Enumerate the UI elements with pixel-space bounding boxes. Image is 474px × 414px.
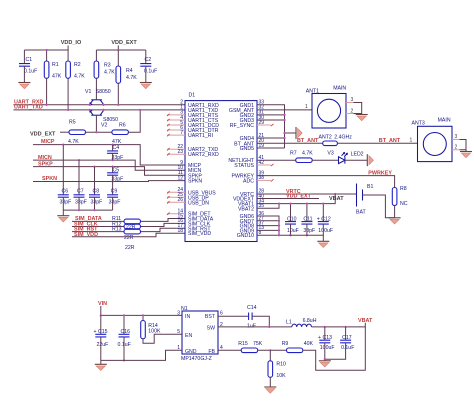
wire VDD_EXT to R5 (60, 131, 69, 133)
junction VIN stem (100, 314, 102, 316)
svg-text:L1: L1 (286, 319, 292, 325)
svg-text:100uF: 100uF (318, 228, 333, 234)
LED V3 (327, 151, 347, 164)
pin 26 USB_DN stub (167, 201, 185, 203)
ground main (317, 241, 329, 247)
resistor R7 (290, 151, 313, 163)
IC N1 regulator (181, 306, 218, 362)
wire VBAT2 (257, 204, 279, 209)
svg-text:10K: 10K (276, 373, 286, 379)
transistor V2 (90, 110, 119, 132)
wire GND9 (257, 229, 279, 231)
svg-text:GND: GND (185, 349, 197, 355)
pin 3 UART1_RTS stub (167, 114, 185, 116)
svg-text:2: 2 (351, 108, 354, 114)
svg-text:22R: 22R (125, 245, 135, 251)
wire BST (218, 315, 249, 317)
svg-text:VBAT2: VBAT2 (238, 206, 254, 212)
junction C13 top (324, 326, 326, 328)
pin numbers N1 (177, 310, 223, 351)
pin 14 SIM_DET stub (167, 213, 185, 215)
svg-text:SW: SW (207, 326, 215, 332)
capacitor C9 (107, 182, 120, 211)
capacitor C17 (325, 327, 355, 359)
pin 29 RF_SYNC stub (257, 124, 274, 126)
wire UART_RXD (13, 104, 185, 106)
junction C16 top (123, 314, 125, 316)
svg-text:VDD_EXT: VDD_EXT (30, 132, 56, 138)
wire ANT3 gnd (460, 140, 467, 152)
wire GND4 (257, 137, 285, 139)
capacitor C10 (285, 204, 299, 236)
svg-text:SPKN: SPKN (188, 179, 202, 185)
junction C4 on MICP (111, 143, 113, 145)
ground C2 (140, 83, 152, 89)
wire gnd stem (62, 210, 64, 216)
svg-text:ANT2: ANT2 (319, 134, 332, 140)
capacitor C13 (318, 327, 335, 361)
wire VDDEXT (257, 198, 319, 200)
capacitor C14 (247, 305, 269, 330)
junction C4 on MICN (111, 159, 113, 161)
wire R9 to VBAT (303, 327, 366, 370)
svg-text:6: 6 (220, 310, 223, 316)
svg-text:40K: 40K (304, 341, 314, 347)
resistor R10 (268, 350, 286, 387)
svg-text:33pF: 33pF (112, 155, 124, 161)
svg-text:D1: D1 (189, 93, 196, 99)
svg-text:33pF: 33pF (75, 200, 87, 206)
junction V2 base (95, 131, 97, 133)
svg-text:33pF: 33pF (303, 228, 315, 234)
pin 3 ANT3 (452, 134, 460, 140)
wire R15 to R9 (258, 349, 287, 351)
junction R1 on RXD (45, 104, 47, 106)
svg-text:MP1470GJ-Z: MP1470GJ-Z (181, 356, 212, 362)
capacitor C16 (118, 315, 131, 360)
svg-text:V2: V2 (101, 123, 107, 129)
svg-text:LED2: LED2 (351, 152, 364, 158)
wire R7 to LED (312, 159, 338, 161)
svg-text:VBAT: VBAT (358, 318, 373, 324)
svg-text:R3: R3 (104, 63, 111, 69)
ground C15 (100, 360, 102, 364)
svg-text:V1: V1 (85, 89, 91, 95)
svg-text:1: 1 (305, 104, 308, 110)
ground audio (57, 216, 69, 222)
junction GND4 (283, 137, 285, 139)
junction C17 top (344, 326, 346, 328)
resistor R11 (112, 216, 141, 224)
resistor R15 (238, 341, 262, 353)
wire SIM_DATA (72, 219, 185, 222)
left pin numbers (177, 100, 183, 234)
ground ANT1 (356, 115, 368, 121)
wire UART_TXD (13, 109, 185, 111)
svg-text:VDD_IO: VDD_IO (61, 40, 82, 46)
junction GND8 (278, 224, 280, 226)
wire BT_ANT to ANT3 (337, 142, 417, 144)
wire ANT1 gnd (354, 103, 362, 115)
ground R8 (389, 218, 401, 224)
svg-text:R9: R9 (282, 341, 289, 347)
pin 7 UART1_RI stub (167, 134, 185, 136)
svg-text:BAT: BAT (356, 210, 367, 216)
wire GSM_ANT (257, 109, 312, 111)
wire GND1 (257, 105, 285, 148)
svg-text:22uF: 22uF (97, 342, 109, 348)
junction SW C14 (268, 326, 270, 328)
pin 22 UART2_TXD stub (167, 148, 185, 150)
svg-text:IN: IN (185, 314, 190, 320)
junction C11 bottom (306, 234, 308, 236)
pin 6 UART1_DTR stub (167, 129, 185, 131)
capacitor C11 (301, 204, 315, 236)
svg-text:3: 3 (351, 97, 354, 103)
wire bottom gnd rail (101, 350, 182, 360)
svg-text:33pF: 33pF (109, 200, 121, 206)
junction R6 on TXD (139, 109, 141, 111)
svg-text:22R: 22R (124, 235, 134, 241)
resistor R4 (116, 50, 137, 105)
junction V1 emitter (89, 104, 91, 106)
svg-text:B1: B1 (367, 184, 373, 190)
junction R2 on TXD (67, 109, 69, 111)
svg-text:R5: R5 (69, 120, 76, 126)
ground ANT3 (460, 152, 472, 158)
svg-text:R13: R13 (112, 227, 122, 233)
svg-text:C1: C1 (26, 57, 33, 63)
svg-text:VIN: VIN (98, 301, 107, 307)
pin 4 UART1_CTS stub (167, 119, 185, 121)
svg-text:USB_DN: USB_DN (188, 200, 209, 206)
svg-text:C7: C7 (77, 189, 84, 195)
svg-text:3: 3 (177, 310, 180, 316)
wire GND8 (257, 225, 279, 227)
wire battery negative (363, 195, 395, 218)
junction C10 top (289, 202, 291, 204)
ground R10 (264, 387, 276, 393)
svg-text:BT_ANT: BT_ANT (379, 138, 401, 144)
junction GND9 (278, 229, 280, 231)
junction C5 on SPKP (111, 165, 113, 167)
resistor R12 (112, 221, 141, 230)
junction VBAT riser (334, 193, 336, 195)
svg-text:23: 23 (177, 149, 183, 155)
wire GND10 rail (257, 235, 323, 241)
wire audio ground rail (63, 209, 112, 211)
svg-text:47K: 47K (52, 74, 62, 80)
svg-text:R1: R1 (52, 62, 59, 68)
right pin numbers (259, 100, 265, 236)
pin 25 USB_DP stub (167, 196, 185, 198)
right pin names (228, 103, 254, 239)
wire BT_ANT (257, 142, 323, 144)
capacitor C8 (89, 167, 102, 211)
wire GND3 (257, 119, 285, 121)
junction VBAT join (278, 202, 280, 204)
svg-text:4.7K: 4.7K (104, 70, 115, 76)
svg-text:MAIN: MAIN (333, 86, 346, 92)
svg-text:4.7K: 4.7K (126, 75, 137, 81)
antenna ANT3 (412, 118, 453, 162)
svg-text:3: 3 (455, 134, 458, 140)
junction C16 bottom (123, 359, 125, 361)
junction R1 top (45, 49, 47, 51)
wire NETLIGHT (257, 159, 296, 161)
transistor V1 (85, 89, 111, 105)
antenna ANT1 (306, 86, 347, 129)
resistor R3 (94, 50, 115, 98)
svg-text:75K: 75K (253, 341, 263, 347)
capacitor C15 (94, 315, 109, 360)
svg-text:RF_SYNC: RF_SYNC (230, 123, 254, 129)
junction R4 on RXD (117, 104, 119, 106)
capacitor C2 (140, 50, 157, 83)
wire GND2 (257, 114, 285, 116)
svg-text:GND10: GND10 (237, 233, 254, 239)
wire gnd tap (285, 132, 297, 134)
wire SW (218, 326, 292, 328)
svg-text:MAIN: MAIN (438, 118, 451, 124)
wire GND5 (257, 147, 285, 149)
wire LED to gnd (345, 159, 367, 161)
junction GND3 (283, 119, 285, 121)
junction C6 on MICP (62, 143, 64, 145)
svg-text:UART2_RXD: UART2_RXD (188, 152, 219, 158)
svg-text:0.1uF: 0.1uF (341, 345, 354, 351)
resistor R6 (112, 123, 128, 146)
svg-text:R10: R10 (276, 361, 286, 367)
wire SIM_VDD (72, 233, 185, 237)
ground C1 (18, 83, 30, 89)
svg-text:R6: R6 (119, 123, 126, 129)
svg-text:BST: BST (205, 314, 216, 320)
junction C13 gnd (324, 358, 326, 360)
wire MICN (33, 160, 185, 170)
junction C7 on MICN (78, 159, 80, 161)
svg-text:33pF: 33pF (91, 200, 103, 206)
svg-text:C4: C4 (113, 145, 120, 151)
svg-text:STATUS: STATUS (234, 163, 254, 169)
svg-text:10uF: 10uF (287, 228, 299, 234)
svg-text:1uF: 1uF (247, 323, 256, 329)
resistor R5 (68, 120, 86, 146)
svg-text:100K: 100K (148, 329, 161, 335)
wire GND7 (257, 220, 279, 222)
svg-text:C2: C2 (145, 57, 152, 63)
wire VDD_EXT rail (96, 49, 145, 51)
svg-text:2: 2 (455, 145, 458, 151)
power port VDD_EXT top (111, 40, 137, 50)
svg-text:12: 12 (177, 175, 183, 181)
svg-text:C8: C8 (93, 189, 100, 195)
svg-text:R7: R7 (290, 151, 297, 157)
junction V2 emitter (89, 109, 91, 111)
wire SIM_CLK (72, 223, 185, 226)
pin 42 STATUS stub (257, 164, 274, 166)
junction gnd tap (283, 132, 285, 134)
resistor R9 (282, 341, 314, 353)
wire SPKN (33, 180, 185, 183)
resistor ANT2 (319, 134, 353, 145)
svg-text:EN: EN (185, 333, 192, 339)
svg-text:C6: C6 (62, 189, 69, 195)
svg-text:0.1uF: 0.1uF (24, 69, 37, 75)
junction R10 tap (269, 349, 271, 351)
svg-text:VBAT: VBAT (329, 196, 344, 202)
capacitor C12 (317, 204, 333, 236)
power port VIN (98, 301, 107, 316)
junction C11 top (306, 202, 308, 204)
junction C9 on SPKN (111, 180, 113, 182)
svg-text:V3: V3 (327, 151, 333, 157)
wire VRTC to battery (257, 193, 357, 195)
svg-text:R4: R4 (126, 68, 133, 74)
svg-text:ADC: ADC (243, 178, 254, 184)
pin 3 ANT1 (346, 97, 354, 103)
svg-text:33pF: 33pF (112, 176, 124, 182)
svg-text:26: 26 (177, 197, 183, 203)
svg-text:C9: C9 (111, 189, 118, 195)
power port VDD_IO (61, 40, 82, 50)
svg-text:FB: FB (208, 349, 215, 355)
svg-text:33pF: 33pF (60, 200, 72, 206)
capacitor C1 (19, 50, 37, 83)
pin 2 ANT1 (346, 108, 354, 114)
svg-text:5: 5 (177, 329, 180, 335)
junction C10 bottom (289, 234, 291, 236)
junction GND2 (283, 114, 285, 116)
junction C8 on SPKP (93, 165, 95, 167)
resistor R2 (66, 50, 85, 110)
resistor R13 (112, 227, 141, 242)
left pin names (188, 103, 219, 237)
svg-text:GND5: GND5 (240, 146, 255, 152)
svg-text:18: 18 (177, 228, 183, 234)
battery B1 (356, 184, 373, 216)
svg-text:R15: R15 (238, 341, 248, 347)
wire SPKP (33, 167, 185, 176)
capacitor C4 (107, 145, 123, 161)
wire SIM_RST (72, 228, 185, 231)
svg-text:SIM_VDD: SIM_VDD (188, 231, 211, 237)
svg-text:6.8uH: 6.8uH (303, 318, 317, 324)
ground LED sideways (367, 154, 373, 166)
svg-text:R2: R2 (74, 62, 81, 68)
resistor R1 (44, 50, 61, 105)
wire GND6 (257, 216, 279, 235)
svg-text:S8050: S8050 (96, 89, 111, 95)
junction GND7 (278, 220, 280, 222)
wire R5 to R6 (86, 131, 112, 133)
svg-text:1: 1 (177, 345, 180, 351)
junction GND rail (278, 234, 280, 236)
pin 2 ANT3 (452, 145, 460, 151)
pin 24 USB_VBUS stub (167, 191, 185, 193)
wire VIN rail (101, 314, 182, 316)
pin 38 ADC stub (257, 179, 274, 181)
svg-text:4.7K: 4.7K (302, 151, 313, 157)
capacitor C6 (58, 145, 72, 211)
resistor R8 (392, 186, 407, 218)
svg-text:R8: R8 (400, 186, 407, 192)
capacitor C7 (74, 160, 87, 210)
junction C7 gnd (78, 209, 80, 211)
wire FB (218, 349, 241, 351)
svg-text:29: 29 (259, 120, 265, 126)
junction V2 collector (102, 109, 104, 111)
capacitor C5 (107, 167, 123, 183)
wire R6 to TXD (128, 110, 140, 132)
svg-text:4.7K: 4.7K (74, 74, 85, 80)
inductor L1 (286, 318, 317, 327)
wire VBAT1 (257, 194, 335, 204)
svg-text:VDD_EXT: VDD_EXT (111, 40, 137, 46)
svg-text:100uF: 100uF (320, 345, 335, 351)
ground sideways GSM (296, 127, 302, 139)
svg-text:UART1_RI: UART1_RI (188, 133, 213, 139)
svg-text:7: 7 (180, 130, 183, 136)
svg-text:1: 1 (410, 138, 413, 144)
junction R14 top (142, 314, 144, 316)
junction V1 collector (102, 104, 104, 106)
wire PWRKEY (257, 176, 395, 188)
pin 23 UART2_RXD stub (167, 153, 185, 155)
svg-text:C14: C14 (247, 305, 257, 311)
wire MICP (33, 145, 185, 165)
junction VDD_EXT stem (117, 49, 119, 51)
svg-text:2.4GHz: 2.4GHz (334, 134, 352, 140)
wire VDD_IO rail (24, 49, 68, 51)
junction C12 top (322, 202, 324, 204)
svg-text:NC: NC (400, 201, 408, 207)
svg-text:ANT3: ANT3 (412, 121, 425, 127)
pin 5 UART1_DCD stub (167, 124, 185, 126)
junction C8 gnd (93, 209, 95, 211)
wire VBAT output (312, 323, 366, 327)
ground C13 (319, 361, 331, 367)
resistor R14 (141, 315, 182, 343)
